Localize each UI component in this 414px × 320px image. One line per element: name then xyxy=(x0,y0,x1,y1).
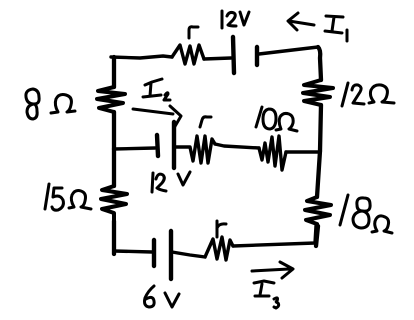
wire left side between middle junction and 15 ohm xyxy=(112,149,116,186)
resistor 12 ohm (right side upper) xyxy=(303,80,333,105)
battery 12V (middle branch) xyxy=(157,122,174,168)
wire left side bottom segment xyxy=(112,221,116,254)
wire right side upper segment xyxy=(318,47,321,80)
resistor r (middle branch) xyxy=(175,136,215,163)
resistor r (bottom branch) xyxy=(205,237,233,260)
wire between top resistor and top battery xyxy=(204,58,231,59)
label r (middle resistor) xyxy=(200,117,211,127)
resistor 8 ohm (left side upper) xyxy=(97,87,125,112)
battery 12V (top branch) xyxy=(233,37,257,73)
resistor 10 ohm (middle branch) xyxy=(259,136,286,170)
wire top-left horizontal segment xyxy=(111,56,172,58)
label 8 ohm xyxy=(26,89,75,119)
label 12 ohm xyxy=(342,83,394,106)
label 18 ohm xyxy=(340,195,392,233)
resistor 18 ohm (right side lower) xyxy=(305,197,331,224)
resistor r (top branch) xyxy=(172,45,204,64)
wire left side upper segment xyxy=(112,57,116,87)
label 12V (top battery) xyxy=(222,11,249,28)
wire bottom-left corner and bottom-left segment xyxy=(114,251,152,252)
wire bottom-right segment xyxy=(233,226,316,246)
wire left side between 8 ohm and middle junction xyxy=(112,112,116,149)
wire middle branch right segment xyxy=(286,150,319,153)
wire bottom branch between battery and r xyxy=(172,252,205,257)
label I2 xyxy=(143,79,170,100)
battery 6V (bottom branch) xyxy=(154,231,171,279)
label 6V (bottom battery) xyxy=(145,286,180,307)
current arrow I2 xyxy=(133,106,181,128)
label I1 xyxy=(325,16,347,41)
label 15 ohm xyxy=(45,184,91,210)
wire right side between 12 ohm and middle junction xyxy=(320,105,321,151)
resistor 15 ohm (left side lower) xyxy=(101,186,127,221)
current arrow I3 xyxy=(252,262,293,278)
label 10 ohm xyxy=(256,107,297,131)
label 12V (middle battery) xyxy=(152,172,190,192)
wire top-right horizontal segment xyxy=(259,47,318,54)
current arrow I1 (pointing left) xyxy=(288,13,314,30)
wire middle branch left segment xyxy=(114,148,155,149)
label r (top resistor) xyxy=(189,27,198,38)
wire middle branch between r and 10 ohm xyxy=(215,144,259,148)
wire right side lower segment xyxy=(316,226,318,246)
wire right side between middle junction and 18 ohm xyxy=(317,151,320,197)
label I3 xyxy=(254,281,279,308)
label r (bottom resistor) xyxy=(217,221,226,237)
